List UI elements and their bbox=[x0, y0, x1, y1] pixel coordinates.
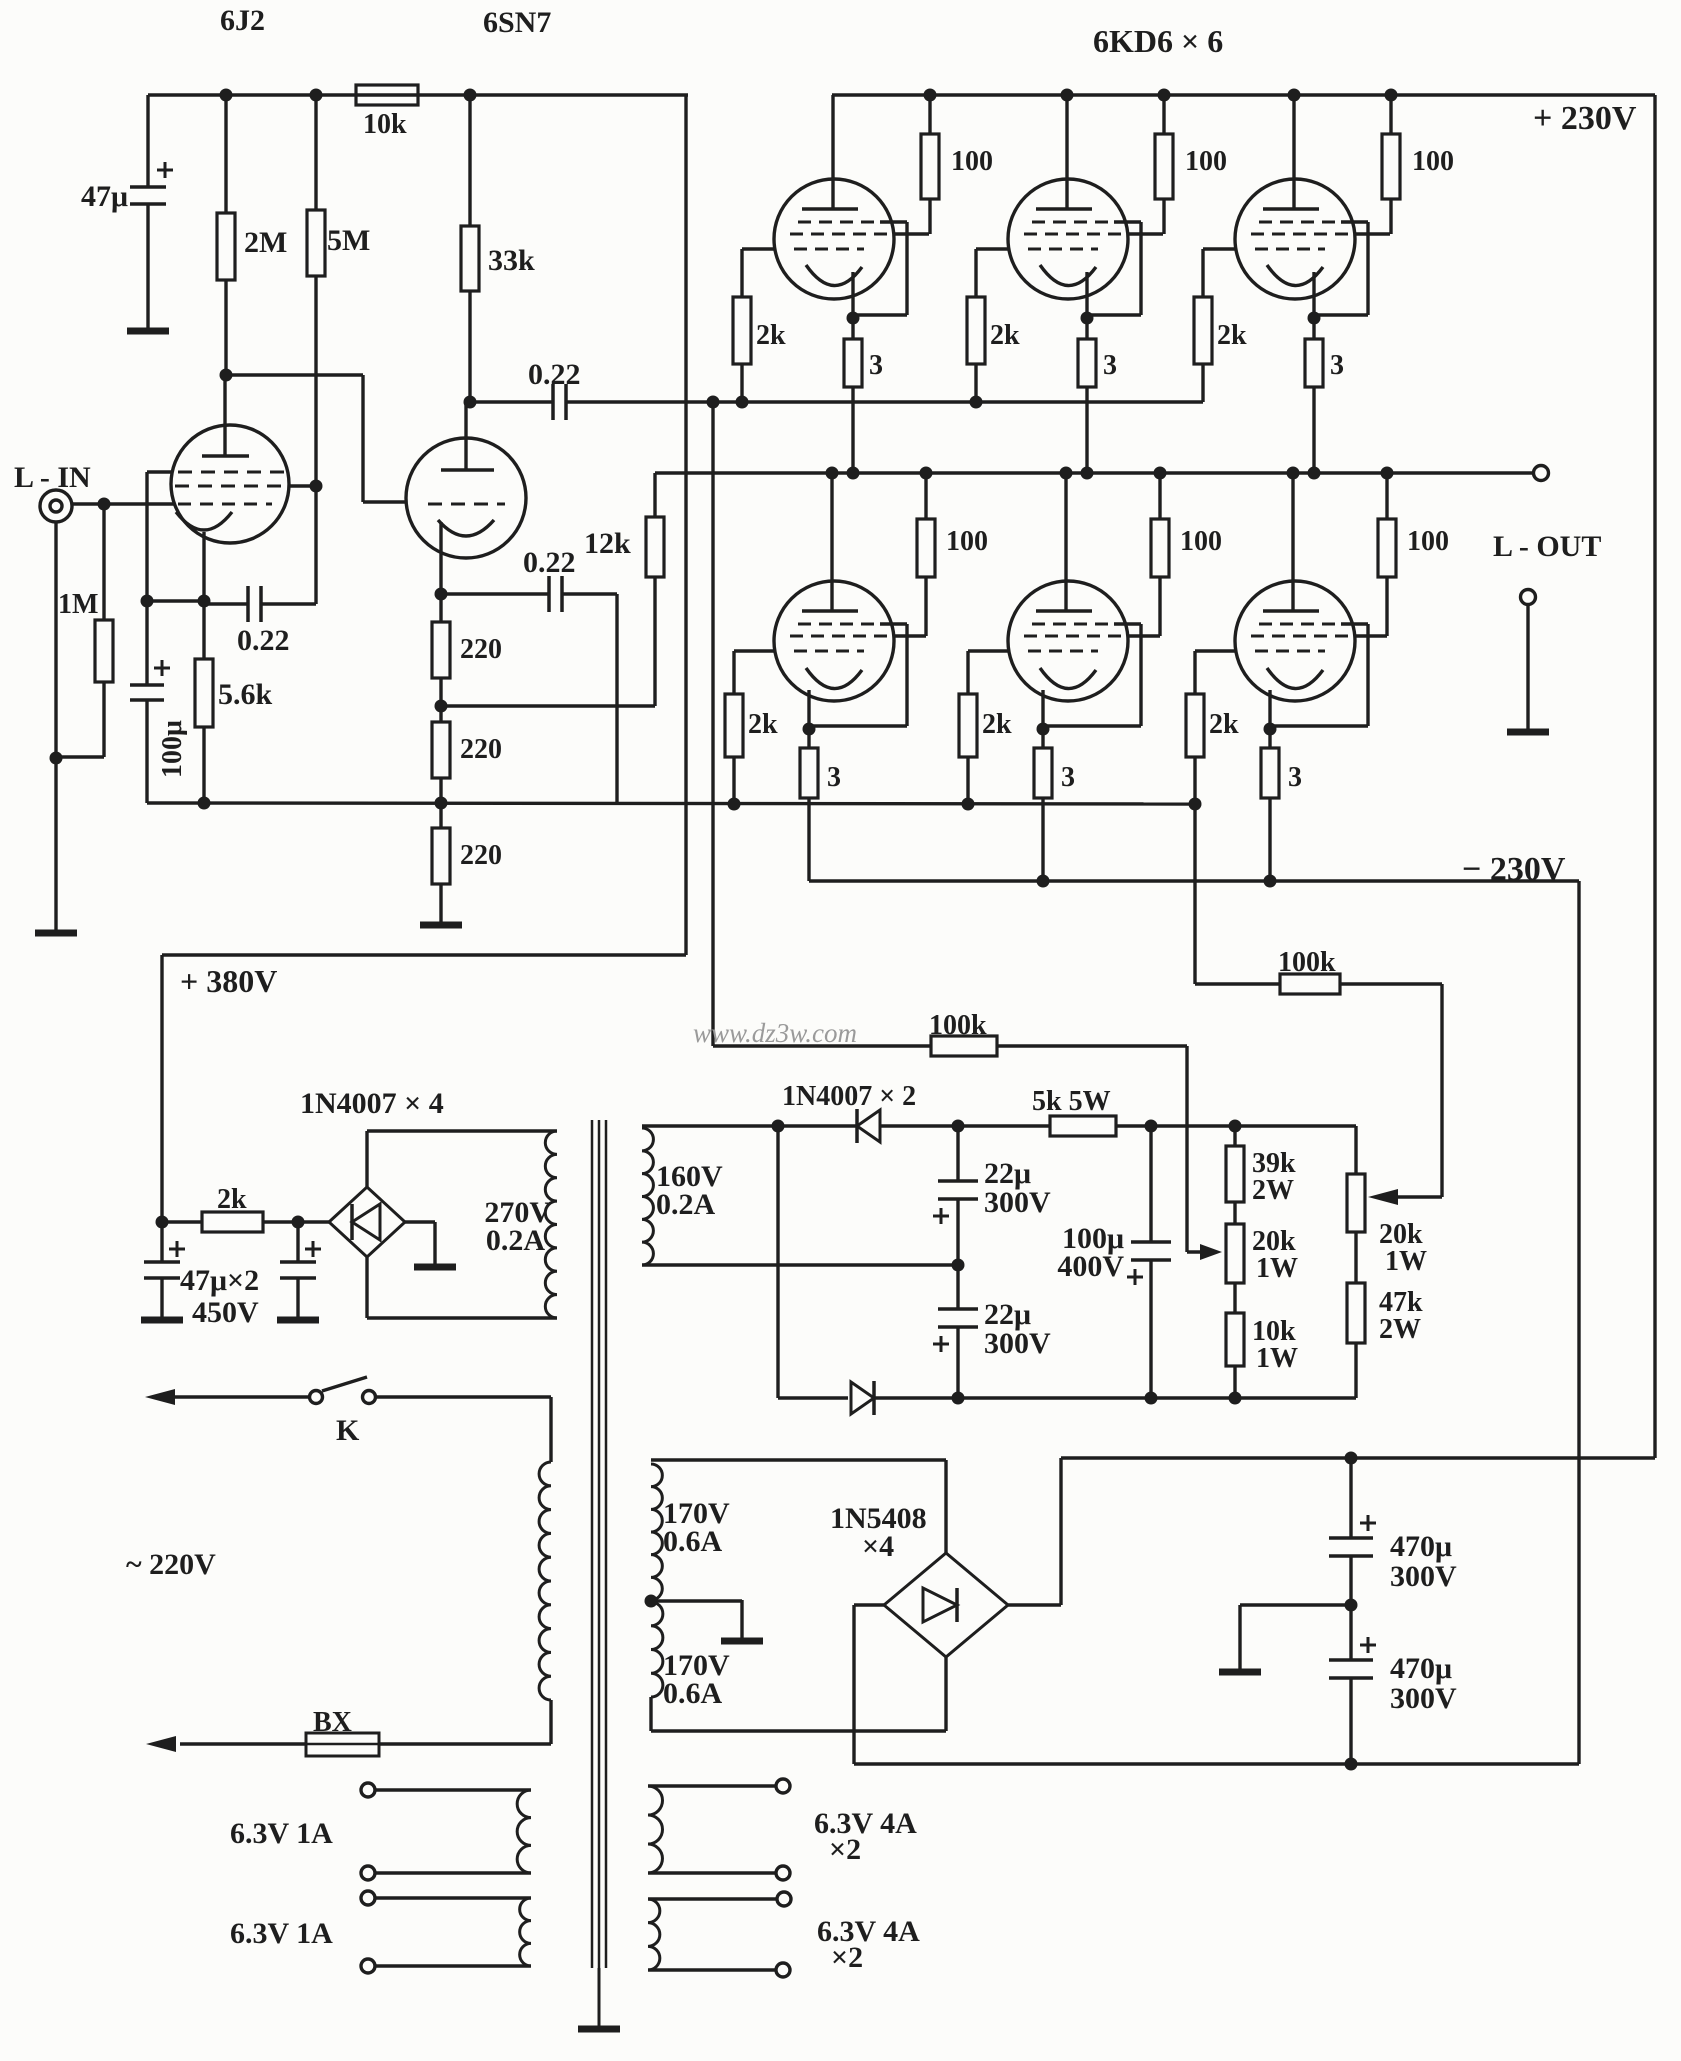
svg-text:300V: 300V bbox=[984, 1186, 1051, 1219]
svg-text:100: 100 bbox=[946, 526, 988, 557]
svg-text:L - IN: L - IN bbox=[14, 461, 91, 494]
svg-text:100: 100 bbox=[1407, 526, 1449, 557]
svg-text:100: 100 bbox=[1180, 526, 1222, 557]
svg-text:BX: BX bbox=[313, 1707, 352, 1738]
svg-text:2k: 2k bbox=[217, 1184, 247, 1215]
svg-text:450V: 450V bbox=[192, 1296, 259, 1329]
svg-text:6SN7: 6SN7 bbox=[483, 6, 551, 39]
svg-text:100: 100 bbox=[951, 146, 993, 177]
svg-text:0.6A: 0.6A bbox=[663, 1677, 723, 1710]
svg-text:www.dz3w.com: www.dz3w.com bbox=[693, 1018, 857, 1048]
svg-text:2k: 2k bbox=[756, 320, 786, 351]
svg-text:2k: 2k bbox=[1209, 709, 1239, 740]
svg-text:300V: 300V bbox=[1390, 1682, 1457, 1715]
svg-text:6J2: 6J2 bbox=[220, 4, 265, 37]
svg-text:6KD6 × 6: 6KD6 × 6 bbox=[1093, 23, 1223, 59]
svg-text:L - OUT: L - OUT bbox=[1493, 530, 1601, 563]
svg-text:2k: 2k bbox=[982, 709, 1012, 740]
svg-text:470μ: 470μ bbox=[1390, 1652, 1452, 1685]
svg-text:3: 3 bbox=[1288, 762, 1302, 793]
svg-text:300V: 300V bbox=[984, 1327, 1051, 1360]
svg-text:220: 220 bbox=[460, 840, 502, 871]
svg-text:100k: 100k bbox=[929, 1010, 987, 1041]
svg-text:×2: ×2 bbox=[831, 1941, 863, 1974]
svg-text:300V: 300V bbox=[1390, 1560, 1457, 1593]
svg-text:10k: 10k bbox=[363, 109, 407, 140]
svg-text:+ 230V: + 230V bbox=[1533, 100, 1637, 137]
svg-text:5M: 5M bbox=[327, 224, 370, 257]
svg-text:0.22: 0.22 bbox=[237, 624, 290, 657]
svg-text:~ 220V: ~ 220V bbox=[126, 1548, 216, 1581]
svg-text:3: 3 bbox=[827, 762, 841, 793]
svg-text:400V: 400V bbox=[1057, 1250, 1124, 1283]
svg-text:1N4007 × 4: 1N4007 × 4 bbox=[300, 1087, 444, 1120]
svg-text:1M: 1M bbox=[58, 589, 98, 620]
svg-text:3: 3 bbox=[869, 350, 883, 381]
svg-text:1W: 1W bbox=[1256, 1343, 1298, 1374]
svg-text:100: 100 bbox=[1185, 146, 1227, 177]
svg-text:×4: ×4 bbox=[862, 1530, 894, 1563]
svg-text:1W: 1W bbox=[1385, 1246, 1427, 1277]
svg-text:2W: 2W bbox=[1252, 1175, 1294, 1206]
svg-text:K: K bbox=[336, 1414, 360, 1447]
svg-text:2k: 2k bbox=[1217, 320, 1247, 351]
svg-text:2W: 2W bbox=[1379, 1314, 1421, 1345]
svg-text:47μ: 47μ bbox=[81, 180, 128, 213]
svg-text:0.22: 0.22 bbox=[523, 546, 576, 579]
svg-text:3: 3 bbox=[1103, 350, 1117, 381]
svg-text:0.22: 0.22 bbox=[528, 358, 581, 391]
svg-text:1N4007 × 2: 1N4007 × 2 bbox=[782, 1081, 916, 1112]
svg-text:+ 380V: + 380V bbox=[180, 963, 277, 999]
svg-text:3: 3 bbox=[1061, 762, 1075, 793]
svg-text:220: 220 bbox=[460, 734, 502, 765]
svg-text:470μ: 470μ bbox=[1390, 1530, 1452, 1563]
svg-text:5k 5W: 5k 5W bbox=[1032, 1086, 1111, 1117]
svg-text:33k: 33k bbox=[488, 244, 535, 277]
svg-text:100: 100 bbox=[1412, 146, 1454, 177]
svg-text:12k: 12k bbox=[584, 527, 631, 560]
svg-text:5.6k: 5.6k bbox=[218, 678, 273, 711]
svg-text:2M: 2M bbox=[244, 226, 287, 259]
svg-text:×2: ×2 bbox=[829, 1833, 861, 1866]
svg-text:6.3V 1A: 6.3V 1A bbox=[230, 1917, 333, 1950]
svg-text:6.3V 1A: 6.3V 1A bbox=[230, 1817, 333, 1850]
svg-text:2k: 2k bbox=[990, 320, 1020, 351]
svg-text:100k: 100k bbox=[1278, 947, 1336, 978]
svg-text:0.2A: 0.2A bbox=[656, 1188, 716, 1221]
svg-text:− 230V: − 230V bbox=[1462, 851, 1566, 888]
svg-text:2k: 2k bbox=[748, 709, 778, 740]
svg-text:0.2A: 0.2A bbox=[486, 1224, 546, 1257]
svg-text:1W: 1W bbox=[1256, 1253, 1298, 1284]
svg-text:47μ×2: 47μ×2 bbox=[180, 1264, 259, 1297]
svg-text:3: 3 bbox=[1330, 350, 1344, 381]
svg-text:100μ: 100μ bbox=[157, 720, 188, 778]
svg-text:0.6A: 0.6A bbox=[663, 1525, 723, 1558]
svg-text:220: 220 bbox=[460, 634, 502, 665]
